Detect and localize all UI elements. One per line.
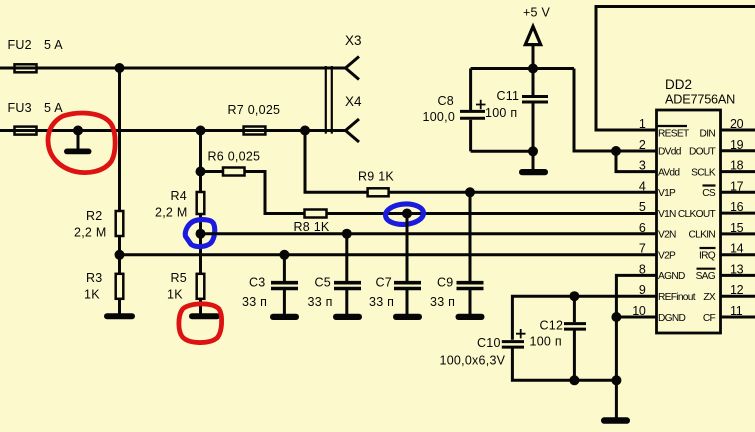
pin 12 wire (721, 295, 755, 298)
pin 15 wire (721, 232, 755, 235)
node junction V2N tap (blue circled) (196, 229, 206, 239)
svg-text:ADE7756AN: ADE7756AN (665, 93, 735, 107)
wire R6 left stub (201, 170, 224, 173)
svg-text:R9 1K: R9 1K (358, 170, 394, 184)
wire R4-R5 link (199, 214, 202, 274)
wire V2P bus (120, 253, 657, 256)
ground under C3 (283, 290, 286, 314)
svg-text:R2: R2 (86, 209, 102, 223)
svg-text:AGND: AGND (658, 271, 685, 282)
svg-text:CF: CF (703, 313, 716, 324)
wire C8-C11 bottom link (471, 150, 533, 153)
node junction R6 branch (196, 167, 206, 177)
svg-text:100,0x6,3V: 100,0x6,3V (440, 354, 506, 368)
resistor R8 (305, 210, 327, 218)
ground under R5 (199, 299, 202, 314)
resistor R7 (244, 127, 266, 135)
svg-text:5 A: 5 A (44, 101, 63, 115)
wire R4 column upper (199, 131, 202, 193)
capacitor C3 (283, 255, 286, 281)
annotation red circle around FU3 ground (48, 113, 115, 173)
wire R2-R3 link (118, 236, 121, 274)
svg-text:V1P: V1P (658, 188, 676, 199)
ground under C5 (345, 290, 348, 314)
wire REFinout loop (512, 296, 656, 340)
pin 17 wire (721, 191, 755, 194)
node junction R2/R3 tap (115, 250, 125, 260)
capacitor C5 (345, 234, 348, 281)
pin 18 wire (721, 170, 755, 173)
connector block X3/X4 double lines (326, 66, 332, 134)
svg-text:5: 5 (639, 200, 646, 214)
svg-text:1K: 1K (167, 288, 183, 302)
svg-text:13: 13 (730, 262, 744, 276)
svg-text:R7 0,025: R7 0,025 (228, 103, 281, 117)
svg-text:6: 6 (639, 221, 646, 235)
pin 14 wire (721, 253, 755, 256)
node junction C7 tap (blue circled) (402, 209, 412, 219)
svg-text:33 п: 33 п (369, 295, 394, 309)
svg-text:2: 2 (639, 138, 646, 152)
svg-text:100,0: 100,0 (423, 110, 456, 124)
svg-text:DD2: DD2 (665, 77, 692, 92)
node junction DGND (611, 312, 621, 322)
svg-text:17: 17 (730, 179, 744, 193)
connector X4 fork (346, 119, 360, 142)
svg-text:19: 19 (730, 138, 744, 152)
node junction DVdd/AVdd (611, 146, 621, 156)
svg-text:2,2 M: 2,2 M (155, 206, 188, 220)
svg-text:X3: X3 (345, 33, 362, 48)
ground under C11 (532, 151, 535, 169)
ground bar bottom (601, 417, 630, 424)
fuse FU2 (15, 64, 37, 72)
svg-text:C9: C9 (437, 276, 453, 290)
svg-text:5 A: 5 A (44, 38, 63, 52)
wire +5V down to DVdd (574, 69, 657, 152)
ground on phase-B wire (73, 126, 83, 136)
svg-text:15: 15 (730, 221, 744, 235)
svg-text:C12: C12 (540, 319, 564, 333)
svg-text:R6 0,025: R6 0,025 (208, 150, 261, 164)
wire X4 node down to V1P bus (305, 131, 368, 193)
wire phase-A net (FU2 output to X3) (0, 67, 345, 70)
wire AVdd link (616, 151, 657, 172)
resistor R9 (368, 188, 389, 196)
svg-text:14: 14 (730, 242, 744, 256)
resistor R6 (223, 168, 245, 176)
svg-text:C11: C11 (497, 89, 520, 103)
svg-text:CLKOUT: CLKOUT (678, 209, 716, 220)
ground under C9 (469, 290, 472, 314)
svg-text:CLKIN: CLKIN (688, 230, 715, 241)
svg-text:FU2: FU2 (8, 38, 32, 52)
pin 20 wire (721, 129, 755, 132)
node junction C5 tap (342, 229, 352, 239)
annotation red circle around R5 ground (179, 304, 222, 343)
svg-text:11: 11 (730, 304, 743, 318)
svg-text:3: 3 (639, 159, 646, 173)
svg-text:REFinout: REFinout (658, 292, 696, 303)
svg-text:C8: C8 (438, 94, 454, 108)
wire R6 to R8 link (245, 172, 305, 214)
plus sign C8 (476, 100, 486, 109)
wire RESET loop (596, 7, 755, 131)
wire phase-B net (FU3 to X4 through R7) (0, 129, 345, 132)
ground under R3 (118, 299, 121, 314)
pin 13 wire (721, 274, 755, 277)
capacitor C10 (electrolytic) (502, 342, 524, 348)
svg-text:18: 18 (730, 159, 744, 173)
node junction C3 tap (279, 250, 289, 260)
svg-text:16: 16 (730, 200, 744, 214)
svg-text:7: 7 (639, 242, 646, 256)
wire V1N bus (327, 212, 657, 215)
svg-text:20: 20 (730, 117, 744, 131)
resistor R3 (116, 274, 124, 299)
node junction R7 right / X4 (300, 126, 310, 136)
wire R2 top segment (118, 68, 121, 211)
chip DD2 ADE7756AN body (657, 110, 721, 333)
wire V1P bus (389, 191, 657, 194)
capacitor C9 (469, 192, 472, 281)
svg-text:X4: X4 (345, 94, 362, 109)
svg-text:FU3: FU3 (8, 101, 32, 115)
node junction C12 top (569, 291, 579, 301)
svg-text:CS: CS (702, 188, 716, 199)
node junction analog gnd bottom (611, 375, 621, 385)
svg-text:1: 1 (639, 117, 646, 131)
svg-text:+5 V: +5 V (523, 6, 550, 20)
node junction C11 bottom (528, 146, 538, 156)
svg-text:2,2 M: 2,2 M (74, 226, 107, 240)
svg-text:C10: C10 (477, 336, 501, 350)
svg-text:R8 1K: R8 1K (294, 220, 330, 234)
connector X3 fork (346, 57, 360, 80)
svg-text:V2N: V2N (658, 230, 676, 241)
svg-text:33 п: 33 п (430, 295, 455, 309)
node junction R7 left / R4 column (196, 126, 206, 136)
svg-text:V1N: V1N (658, 209, 676, 220)
svg-text:IRQ: IRQ (699, 251, 716, 262)
resistor R4 (197, 192, 205, 214)
ground under C7 (406, 290, 409, 314)
svg-text:1K: 1K (84, 288, 100, 302)
capacitor C8 (electrolytic) (469, 69, 472, 111)
svg-text:4: 4 (639, 179, 646, 193)
wire DGND stub (616, 316, 656, 319)
pin 16 wire (721, 212, 755, 215)
svg-text:12: 12 (730, 283, 744, 297)
svg-text:RESET: RESET (658, 128, 689, 139)
resistor R2 (116, 211, 124, 236)
svg-text:V2P: V2P (658, 251, 676, 262)
svg-text:100 п: 100 п (530, 335, 562, 349)
svg-text:SAG: SAG (696, 271, 716, 282)
node junction FU2-R2 (115, 63, 125, 73)
svg-text:100 п: 100 п (485, 106, 517, 120)
wire +5V rail (471, 67, 574, 70)
svg-text:DOUT: DOUT (689, 147, 716, 158)
node junction C12 bottom (569, 375, 579, 385)
annotation blue circle around C7 tap (385, 203, 424, 226)
capacitor C11 (532, 69, 535, 96)
node junction +5V rail (528, 64, 538, 74)
capacitor C12 (573, 296, 576, 322)
svg-text:C7: C7 (376, 276, 392, 290)
resistor R5 (197, 274, 205, 299)
svg-text:C5: C5 (315, 276, 331, 290)
svg-text:DIN: DIN (700, 128, 716, 139)
svg-text:ZX: ZX (703, 292, 716, 303)
svg-text:33 п: 33 п (308, 295, 333, 309)
svg-text:R3: R3 (86, 271, 102, 285)
wire V2N bus (201, 232, 657, 235)
fuse FU3 (15, 127, 37, 135)
wire AGND to ground column (616, 275, 656, 417)
pin 11 wire (721, 316, 755, 319)
capacitor C7 (406, 214, 409, 282)
svg-text:R4: R4 (171, 189, 187, 203)
pin 19 wire (721, 149, 755, 152)
svg-text:DVdd: DVdd (658, 147, 682, 158)
node junction C9 tap (465, 187, 475, 197)
svg-text:AVdd: AVdd (658, 167, 680, 178)
svg-text:SCLK: SCLK (691, 167, 716, 178)
annotation blue circle around V2N tap (185, 220, 214, 247)
svg-text:33 п: 33 п (242, 295, 267, 309)
svg-text:R5: R5 (171, 271, 187, 285)
svg-text:DGND: DGND (658, 313, 686, 324)
svg-text:C3: C3 (249, 276, 265, 290)
plus sign C10 (516, 329, 526, 338)
